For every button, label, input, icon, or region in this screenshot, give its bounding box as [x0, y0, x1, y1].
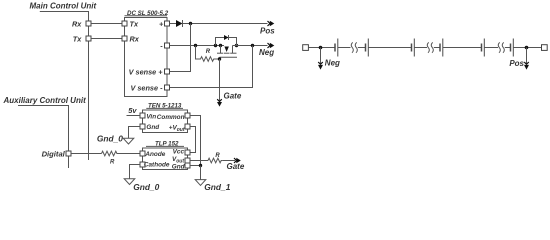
svg-text:Rx: Rx	[72, 20, 82, 29]
connector Pos (down)	[509, 48, 529, 70]
wire B6 to T2	[513, 47, 541, 49]
wire V sense -	[170, 46, 253, 88]
svg-text:R: R	[110, 159, 115, 165]
terminal T2 (battery string right)	[542, 45, 548, 51]
battery cell B6	[511, 39, 514, 57]
diode D1	[170, 20, 183, 27]
svg-text:+: +	[159, 20, 164, 29]
battery cell B1	[335, 39, 338, 57]
pin Tx (Main Control Unit)	[73, 34, 91, 43]
pin U1 Tx	[122, 20, 139, 29]
resistor R3	[208, 153, 222, 163]
pin U3 Anode	[140, 151, 166, 158]
connector Neg (down)	[318, 48, 340, 70]
break symbol 3	[498, 42, 510, 52]
converter U2 TEN 5-1213	[143, 102, 188, 132]
connector Gate (out)	[222, 158, 245, 172]
svg-text:R: R	[215, 153, 220, 159]
pin U2 Gnd	[140, 124, 160, 131]
wire U3 Vout to R3	[190, 160, 208, 162]
svg-text:Vin: Vin	[146, 113, 156, 120]
svg-text:V sense +: V sense +	[129, 68, 164, 77]
ground Gnd_1	[195, 166, 231, 193]
wire T1 to B1	[308, 47, 334, 49]
wire Digital to R2	[71, 153, 102, 155]
battery cell B5	[482, 39, 485, 57]
svg-text:Cathode: Cathode	[144, 161, 170, 168]
svg-text:R: R	[206, 49, 211, 55]
wire U2 +Vout to U3 Vcc	[190, 127, 196, 153]
pin U1 V sense +	[129, 68, 170, 77]
svg-text:Neg: Neg	[259, 48, 274, 57]
node A (Pos / V sense + junction)	[189, 22, 192, 25]
svg-text:Pos: Pos	[509, 59, 524, 68]
wire Rx to U1 Tx	[91, 23, 122, 25]
optocoupler U3 TLP 152	[143, 140, 188, 169]
battery cell B2	[366, 39, 369, 57]
svg-text:Tx: Tx	[73, 34, 82, 43]
svg-text:V sense -: V sense -	[130, 84, 163, 93]
svg-text:5v: 5v	[128, 106, 137, 115]
connector Gate (down, from Q1 gate)	[217, 59, 242, 107]
terminal T1 (battery string left)	[303, 45, 309, 51]
pin U1 V sense -	[130, 84, 169, 93]
pin U2 Common	[157, 113, 190, 121]
svg-text:Gnd_1: Gnd_1	[204, 182, 230, 192]
svg-text:Anode: Anode	[144, 151, 165, 158]
connector Neg	[259, 43, 274, 57]
break symbol 1	[351, 42, 365, 52]
svg-text:Gate: Gate	[227, 162, 245, 171]
wire B5 to break 3	[484, 47, 498, 49]
svg-text:Gnd: Gnd	[146, 124, 160, 131]
resistor R1	[196, 46, 220, 62]
battery cell B3	[412, 39, 415, 57]
svg-text:Common: Common	[157, 114, 185, 121]
pin Rx (Main Control Unit)	[72, 20, 91, 29]
svg-text:Gnd_0: Gnd_0	[97, 133, 123, 143]
pin U3 Vout	[172, 156, 190, 164]
wire Pos rail	[183, 23, 268, 25]
node C (Neg / V sense - junction)	[251, 44, 254, 47]
svg-text:Rx: Rx	[130, 34, 140, 43]
connector Pos	[260, 21, 275, 36]
wire minus rail (right)	[233, 45, 268, 47]
pin U3 Gnd	[172, 163, 190, 170]
wire R2 to U3 Anode	[118, 153, 140, 155]
break symbol 2	[427, 42, 439, 52]
pin U3 Vcc	[173, 149, 190, 156]
svg-text:Vcc: Vcc	[173, 149, 185, 156]
node Pos tap	[525, 46, 529, 50]
resistor R2	[102, 151, 119, 165]
pin U1 Rx	[122, 34, 140, 43]
MOSFET Q1	[214, 44, 238, 61]
wire V sense +	[170, 24, 191, 72]
Main Control Unit box	[30, 2, 97, 161]
svg-text:Pos: Pos	[260, 27, 275, 36]
wire Tx to U1 Rx	[91, 38, 122, 40]
svg-text:Gate: Gate	[224, 92, 242, 101]
svg-text:Auxiliary Control Unit: Auxiliary Control Unit	[3, 96, 87, 105]
wire B4 to B5	[443, 47, 481, 49]
wire U3 Cathode to ground	[130, 165, 141, 179]
pin U3 Cathode	[140, 161, 170, 168]
node B (R1 tap)	[194, 44, 197, 47]
pin U1 +	[159, 20, 170, 29]
pin U2 Vin	[140, 113, 156, 120]
ground Gnd_0 (U3 Cathode)	[124, 179, 159, 192]
wire U3 Gnd to ground node	[190, 165, 201, 167]
battery cell B4	[440, 39, 443, 57]
ground Gnd_0 (U2 Gnd)	[97, 127, 140, 145]
node Neg tap	[319, 46, 323, 50]
diode D2 (body diode)	[216, 35, 237, 46]
wire U2 Common to ground node	[190, 116, 201, 166]
pin U1 -	[160, 41, 169, 50]
svg-text:Gnd: Gnd	[172, 163, 186, 170]
svg-text:Digital: Digital	[42, 150, 66, 159]
pin Digital (Auxiliary Control Unit)	[42, 150, 71, 159]
Auxiliary Control Unit box	[3, 96, 87, 168]
node D (Gnd_1 junction)	[199, 164, 202, 167]
svg-text:Main Control Unit: Main Control Unit	[30, 2, 97, 11]
svg-text:Neg: Neg	[325, 58, 340, 67]
converter U1 DC SL 500-5.2	[125, 10, 169, 97]
pin U2 +Vout	[169, 124, 190, 133]
wire B2 to B3	[368, 47, 411, 49]
svg-text:Gnd_0: Gnd_0	[133, 182, 159, 192]
wire B1 to break 1	[338, 47, 351, 49]
wire B3 to break 2	[414, 47, 427, 49]
net label 5v	[127, 106, 141, 115]
wire minus rail (left)	[170, 45, 225, 47]
svg-text:Tx: Tx	[130, 20, 139, 29]
